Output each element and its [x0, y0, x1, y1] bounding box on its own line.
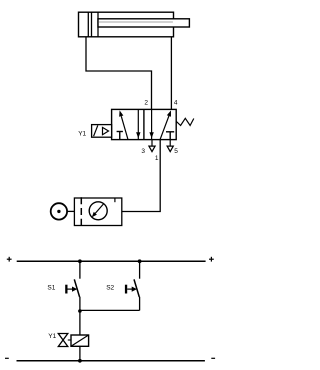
- svg-text:1: 1: [155, 155, 159, 162]
- pushbutton S1: [65, 261, 80, 335]
- label + left: [7, 257, 12, 262]
- wire valve port 1 to air service unit: [122, 140, 160, 212]
- wire S2 branch to node: [80, 309, 140, 311]
- 0V rail (bottom): [17, 360, 205, 362]
- node dot junction: [78, 309, 82, 313]
- wire cylinder cap-end port to valve port 2: [86, 37, 152, 110]
- valve right-position flow arrow 2 to 3: [149, 110, 153, 140]
- svg-text:Y1: Y1: [78, 131, 86, 138]
- node dot rail S1 branch: [78, 259, 82, 263]
- valve left-position blocked port 3: [117, 132, 123, 140]
- valve right-position blocked port 5: [166, 132, 174, 140]
- pushbutton S2: [125, 261, 140, 310]
- svg-text:S1: S1: [47, 284, 55, 291]
- svg-text:Y1: Y1: [48, 333, 56, 340]
- svg-text:S2: S2: [106, 284, 114, 291]
- valve pictogram for coil Y1: [58, 334, 71, 347]
- compressed air source: [51, 203, 67, 219]
- cylinder body: [79, 12, 174, 37]
- label minus right: [211, 357, 215, 359]
- node dot rail S2 branch: [138, 259, 142, 263]
- air service unit: [74, 197, 121, 225]
- valve V1 5/2-way body: [112, 109, 177, 139]
- exhaust port 5 arrow: [167, 140, 173, 152]
- node dot bottom rail: [78, 359, 82, 363]
- wire source to service unit: [67, 210, 74, 212]
- exhaust port 3 arrow: [149, 140, 155, 152]
- svg-text:2: 2: [144, 99, 148, 106]
- solenoid coil Y1: [71, 335, 89, 346]
- svg-text:5: 5: [174, 148, 178, 155]
- wire cylinder rod-end port to valve port 4: [170, 37, 172, 110]
- valve right-position flow arrow 1 to 4: [160, 110, 171, 139]
- cylinder piston: [88, 12, 98, 36]
- return spring: [176, 118, 194, 125]
- valve left-position exhaust arrow 4 to 5: [136, 110, 140, 140]
- +24V rail (top): [17, 260, 206, 262]
- valve left-position flow arrow 1 to 2: [119, 110, 128, 139]
- label minus left: [5, 357, 9, 359]
- svg-text:4: 4: [174, 99, 178, 106]
- svg-text:3: 3: [141, 148, 145, 155]
- label + right: [209, 257, 214, 262]
- wire coil to 0V rail: [79, 346, 81, 361]
- pressure regulator gauge: [89, 202, 107, 220]
- solenoid pilot actuator Y1: [92, 125, 112, 138]
- cylinder piston rod: [98, 19, 189, 27]
